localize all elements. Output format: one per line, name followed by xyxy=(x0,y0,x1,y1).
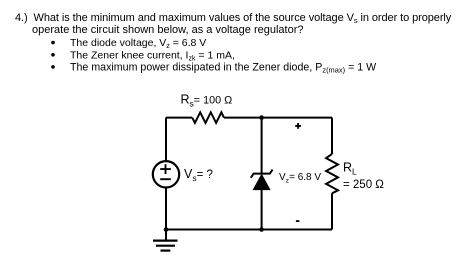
zener diode triangle (anode, filled) xyxy=(253,175,269,190)
svg-text:RL: RL xyxy=(343,161,357,177)
bullet 3 dot xyxy=(51,65,55,69)
wire: top segment from Rs to right corner xyxy=(224,117,332,119)
bullet 1 dot xyxy=(51,41,55,45)
svg-text:Rs= 100 Ω: Rs= 100 Ω xyxy=(181,93,233,109)
bottom wire xyxy=(166,229,332,231)
wire: right vertical from RL to bottom corner xyxy=(331,193,333,229)
wire: top left segment from left corner to resistor Rs xyxy=(166,117,192,119)
zener diode cathode bar with bent tips xyxy=(251,170,273,178)
voltage source Vs circle xyxy=(153,161,179,187)
junction dot bottom of zener branch xyxy=(259,227,264,232)
svg-text:operate the circuit shown belo: operate the circuit shown below, as a vo… xyxy=(32,24,304,36)
ground bar 1 xyxy=(153,240,178,242)
junction dot bottom left node xyxy=(164,227,169,232)
svg-text:= 250 Ω: = 250 Ω xyxy=(343,179,384,191)
wire: zener branch upper vertical xyxy=(261,118,263,174)
svg-text:The maximum power dissipated i: The maximum power dissipated in the Zene… xyxy=(70,61,376,74)
wire: right vertical from top corner to RL xyxy=(331,118,333,154)
minus sign inside source xyxy=(160,178,171,180)
resistor Rs zigzag xyxy=(192,112,224,123)
svg-text:Vs= ?: Vs= ? xyxy=(184,167,213,183)
wire: left vertical from top wire down to source top xyxy=(165,118,167,161)
resistor RL zigzag (vertical) xyxy=(326,154,338,193)
ground bar 3 xyxy=(161,250,171,252)
ground stub xyxy=(165,230,167,241)
plus sign inside source xyxy=(160,164,171,174)
svg-text:The diode voltage, Vz = 6.8 V: The diode voltage, Vz = 6.8 V xyxy=(70,37,206,50)
svg-text:The Zener knee current, Izk =: The Zener knee current, Izk = 1 mA, xyxy=(70,49,235,62)
bullet 2 dot xyxy=(51,53,55,57)
minus polarity mark bottom right xyxy=(296,220,300,222)
node junction dot at top of zener branch xyxy=(259,115,264,120)
wire: left vertical from source bottom to bottom wire xyxy=(165,188,167,229)
plus polarity mark top right xyxy=(295,123,301,129)
wire: zener branch lower vertical xyxy=(261,190,263,230)
svg-text:Vz= 6.8 V: Vz= 6.8 V xyxy=(279,172,321,184)
ground bar 2 xyxy=(156,245,175,247)
